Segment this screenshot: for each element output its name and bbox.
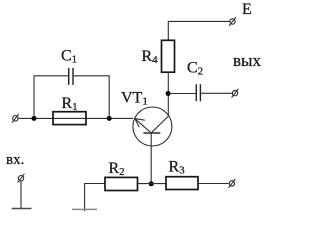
node left junction bbox=[32, 116, 37, 121]
wire R4 bottom to collector bbox=[167, 72, 169, 115]
wire base to bottom rail bbox=[150, 133, 152, 184]
svg-text:R4: R4 bbox=[142, 48, 159, 66]
wire bottom-left branch bbox=[85, 184, 105, 212]
resistor R4 bbox=[162, 40, 175, 72]
terminal vx input bbox=[18, 174, 25, 183]
wire C2 to output terminal bbox=[201, 92, 232, 94]
resistor R3 bbox=[166, 177, 198, 190]
svg-text:вых: вых bbox=[233, 51, 261, 70]
svg-text:R3: R3 bbox=[169, 158, 186, 176]
svg-text:R1: R1 bbox=[62, 95, 78, 113]
terminal E bbox=[229, 17, 236, 26]
terminal bottom right bbox=[229, 179, 236, 188]
wire C1 to right branch bbox=[74, 76, 110, 119]
svg-text:E: E bbox=[242, 1, 252, 18]
node junction under R4 bbox=[166, 91, 171, 96]
capacitor C1 bbox=[69, 68, 73, 85]
capacitor C2 bbox=[196, 84, 200, 101]
node right junction bbox=[107, 116, 112, 121]
node base-R2R3 junction bbox=[149, 181, 154, 186]
wire C1 branch bbox=[34, 76, 68, 119]
terminal output bbox=[232, 89, 239, 98]
wire input to transistor emitter bbox=[19, 117, 133, 119]
resistor R2 bbox=[105, 177, 138, 190]
wire top rail to E bbox=[168, 21, 229, 40]
ground bar right bbox=[72, 208, 97, 210]
wire R2 to R3 bbox=[138, 183, 167, 185]
svg-text:R2: R2 bbox=[109, 160, 125, 178]
wire junction to C2 bbox=[168, 93, 196, 95]
svg-text:C1: C1 bbox=[61, 48, 77, 66]
wire R3 to right terminal bbox=[198, 183, 229, 185]
ground bar left bbox=[12, 208, 32, 210]
svg-text:VT1: VT1 bbox=[121, 90, 148, 108]
resistor R1 bbox=[53, 112, 86, 125]
terminal input bbox=[12, 114, 19, 123]
svg-text:вх.: вх. bbox=[6, 152, 24, 168]
transistor VT1 bbox=[133, 107, 172, 146]
svg-text:C2: C2 bbox=[187, 60, 203, 78]
wire vx terminal down bbox=[20, 181, 22, 209]
